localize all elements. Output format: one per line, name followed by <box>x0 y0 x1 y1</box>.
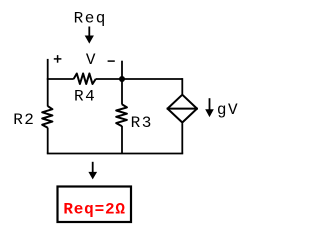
arrow gV current direction <box>205 98 214 117</box>
wire top rail right <box>96 78 183 80</box>
result box <box>58 187 132 223</box>
resistor R2 <box>42 106 52 128</box>
wire left lower <box>47 128 49 154</box>
svg-text:R3: R3 <box>131 114 153 132</box>
wire middle lower <box>121 126 123 154</box>
wire right branch lower <box>181 123 183 153</box>
svg-text:Req=2Ω: Req=2Ω <box>63 201 125 219</box>
resistor R3 <box>116 104 127 126</box>
arrow Req pointer <box>85 27 94 44</box>
wire middle upper <box>121 79 123 105</box>
junction dot <box>119 76 125 82</box>
wire right stub above junction <box>121 61 123 79</box>
wire bottom rail <box>47 153 183 155</box>
svg-text:gV: gV <box>217 101 239 119</box>
svg-text:R4: R4 <box>74 88 96 106</box>
wire top rail left <box>47 78 74 80</box>
wire left stub <box>47 59 49 107</box>
arrow bottom pointer <box>88 162 97 180</box>
dependent source diamond <box>167 95 198 123</box>
plus polarity mark <box>54 55 62 63</box>
resistor R4 <box>74 74 96 85</box>
wire right branch upper <box>181 78 183 94</box>
svg-text:V: V <box>86 51 96 69</box>
svg-text:R2: R2 <box>13 111 35 129</box>
minus polarity mark <box>108 60 115 62</box>
svg-text:Req: Req <box>74 10 107 28</box>
